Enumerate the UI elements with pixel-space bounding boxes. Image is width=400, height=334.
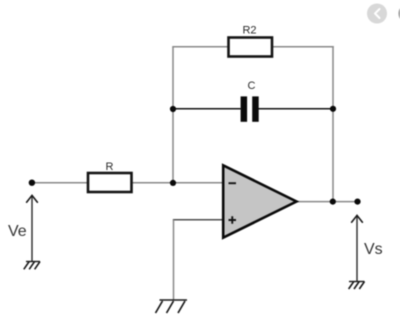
op-amp U1 (223, 165, 296, 237)
ground (Vs output) (349, 282, 365, 290)
svg-text:Vs: Vs (364, 241, 383, 258)
nav button back (grey circle with chevron) (367, 4, 387, 24)
node: output terminal dot (354, 199, 360, 205)
wire: resistor R to inverting input (130, 182, 224, 184)
ground (non-inverting input) (156, 300, 188, 313)
svg-text:C: C (248, 80, 256, 92)
wire: feedback right vertical (332, 46, 334, 202)
wire: ground drop from non-inverting corner (173, 220, 175, 300)
node: capacitor branch left junction (170, 106, 176, 112)
resistor R2 (229, 25, 273, 57)
voltage arrow Vs (352, 215, 363, 281)
node: capacitor branch right junction (330, 106, 336, 112)
svg-text:R: R (106, 161, 114, 173)
capacitor C (241, 80, 259, 122)
ground (Ve source) (24, 262, 40, 270)
wire: capacitor branch right (259, 108, 334, 110)
resistor R (88, 161, 132, 192)
svg-text:Ve: Ve (8, 223, 27, 240)
wire: feedback top horizontal through R2 (172, 46, 334, 48)
wire: input node to resistor R (32, 182, 88, 184)
label Vs (364, 241, 383, 258)
wire: capacitor branch left (173, 108, 241, 110)
wire: op-amp output (296, 201, 358, 203)
wire: non-inverting input down to ground (173, 219, 224, 221)
wire: feedback left vertical (172, 47, 174, 184)
voltage arrow Ve (27, 195, 38, 261)
node: output junction (330, 199, 336, 205)
node: input terminal dot (29, 180, 35, 186)
label Ve (8, 223, 27, 240)
svg-text:R2: R2 (242, 25, 256, 37)
nav button forward (partial circle at right edge) (399, 4, 400, 24)
node: inverting input junction (170, 180, 176, 186)
